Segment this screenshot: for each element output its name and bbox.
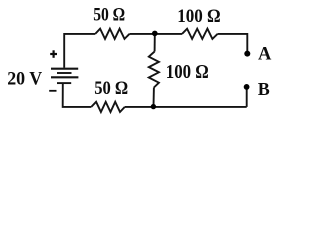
svg-text:100 Ω: 100 Ω [166, 62, 209, 83]
wire: lead from node C down to R3 [154, 34, 156, 52]
battery polarity plus sign [50, 50, 57, 58]
svg-text:50 Ω: 50 Ω [94, 79, 128, 99]
terminal B dot [244, 84, 250, 90]
battery E plate 2 short [57, 72, 72, 74]
svg-text:50 Ω: 50 Ω [93, 5, 125, 25]
wire: top rail from R2 to right corner and down to terminal A [218, 34, 248, 52]
battery E plate 1 long (positive) [51, 68, 78, 70]
svg-text:B: B [258, 79, 270, 99]
resistor R4 50 ohm bottom zigzag [91, 102, 125, 112]
wire: bottom rail from R4 to corner below terminal B [125, 106, 247, 108]
battery E plate 4 short (negative) [57, 82, 71, 84]
node C junction dot (top middle) [152, 31, 158, 37]
svg-text:A: A [258, 44, 272, 64]
resistor R1 50 ohm top-left zigzag [95, 29, 129, 39]
wire: left rail from top-left corner down to battery positive plate [64, 34, 95, 68]
battery polarity minus sign [49, 90, 56, 92]
wire: vertical from bottom rail up to terminal B [246, 89, 248, 107]
wire: bottom rail from battery negative down and right to R4 [63, 83, 92, 107]
wire: top rail from R1 to node C [129, 33, 154, 35]
resistor R3 100 ohm middle vertical zigzag [149, 52, 159, 88]
svg-text:20 V: 20 V [7, 70, 43, 90]
svg-text:100 Ω: 100 Ω [177, 7, 221, 27]
wire: top rail from node C to R2 [155, 33, 182, 35]
resistor R2 100 ohm top-right zigzag [182, 29, 218, 39]
wire: lead from R3 down to bottom node D [153, 88, 155, 107]
terminal A dot [244, 51, 250, 57]
node D junction dot (bottom middle) [151, 104, 156, 109]
battery E plate 3 long [51, 76, 78, 78]
